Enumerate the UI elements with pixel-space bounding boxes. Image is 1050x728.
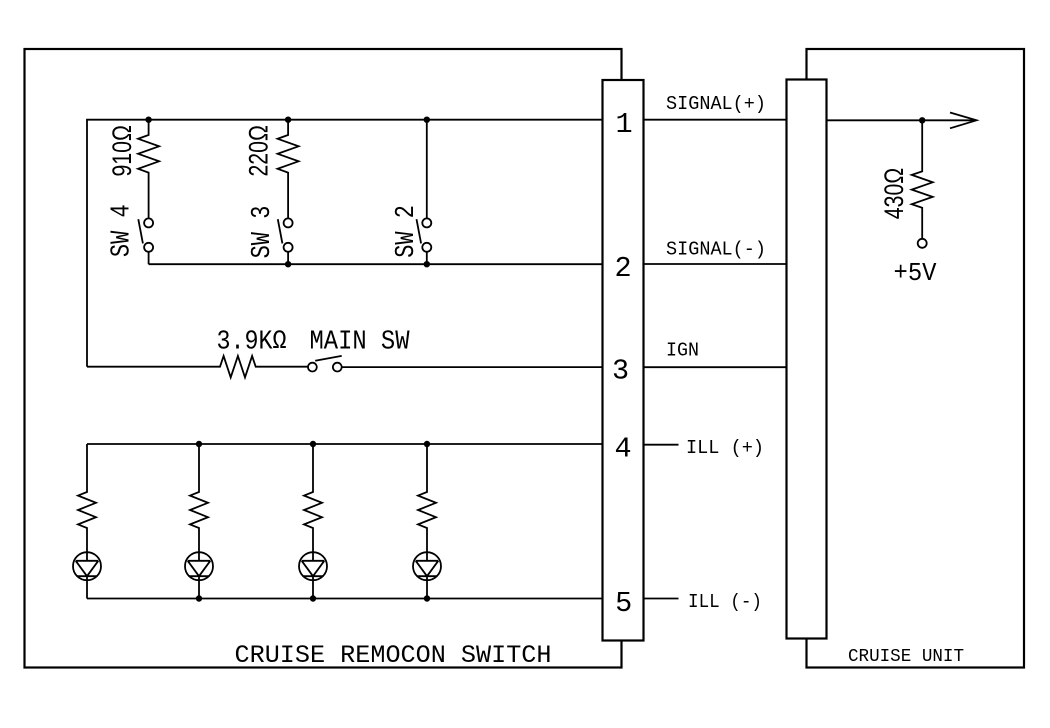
svg-text:SW 4: SW 4 <box>108 204 138 257</box>
svg-text:ILL (+): ILL (+) <box>686 437 764 459</box>
svg-text:SW 3: SW 3 <box>248 206 278 259</box>
svg-text:SW 2: SW 2 <box>392 205 422 258</box>
svg-text:220Ω: 220Ω <box>244 125 274 177</box>
svg-text:ILL (-): ILL (-) <box>688 591 762 613</box>
svg-text:5: 5 <box>615 587 632 620</box>
svg-text:1: 1 <box>615 108 632 141</box>
svg-text:4: 4 <box>614 432 631 465</box>
svg-text:MAIN SW: MAIN SW <box>310 328 411 358</box>
svg-text:CRUISE REMOCON SWITCH: CRUISE REMOCON SWITCH <box>235 641 552 670</box>
svg-text:910Ω: 910Ω <box>107 125 137 177</box>
svg-text:2: 2 <box>614 252 631 285</box>
svg-text:430Ω: 430Ω <box>879 168 909 220</box>
svg-text:+5V: +5V <box>894 258 937 288</box>
svg-text:SIGNAL(-): SIGNAL(-) <box>666 238 766 260</box>
svg-text:3: 3 <box>612 354 629 387</box>
svg-text:IGN: IGN <box>666 340 699 362</box>
svg-text:3.9KΩ: 3.9KΩ <box>217 328 287 358</box>
svg-text:SIGNAL(+): SIGNAL(+) <box>666 93 766 115</box>
svg-text:CRUISE UNIT: CRUISE UNIT <box>848 647 964 667</box>
